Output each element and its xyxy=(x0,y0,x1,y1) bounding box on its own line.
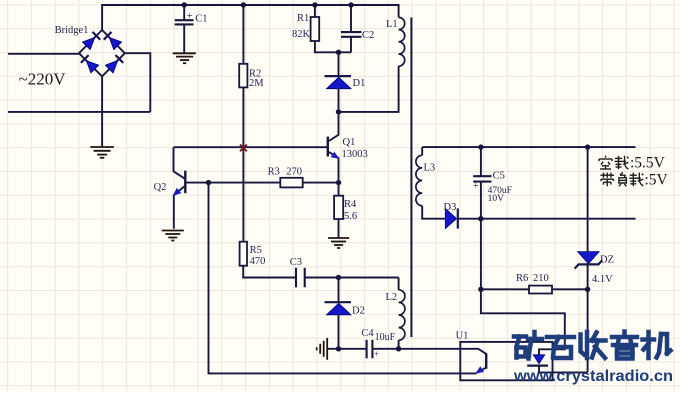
svg-text:www.crystalradio.cn: www.crystalradio.cn xyxy=(513,368,673,385)
svg-text:D2: D2 xyxy=(352,306,365,317)
svg-text:C1: C1 xyxy=(195,13,207,24)
svg-text:U1: U1 xyxy=(456,330,469,341)
svg-text:4.1V: 4.1V xyxy=(592,274,613,285)
svg-text:+: + xyxy=(374,349,379,359)
svg-text:Q2: Q2 xyxy=(154,182,167,193)
svg-text:Q1: Q1 xyxy=(343,137,356,148)
svg-text:C4: C4 xyxy=(361,328,374,339)
svg-text:~220V: ~220V xyxy=(19,70,67,89)
svg-text:210: 210 xyxy=(533,273,549,284)
svg-text::5V: :5V xyxy=(645,171,669,188)
svg-text:10uF: 10uF xyxy=(375,332,396,343)
svg-text:C5: C5 xyxy=(493,170,505,181)
svg-text:C3: C3 xyxy=(290,257,302,268)
svg-text:L1: L1 xyxy=(386,19,398,30)
svg-text:C2: C2 xyxy=(362,30,374,41)
svg-text:Bridge1: Bridge1 xyxy=(55,25,89,36)
svg-text:270: 270 xyxy=(286,167,302,178)
svg-text:5.6: 5.6 xyxy=(344,211,357,222)
svg-text:+: + xyxy=(473,181,479,192)
svg-text:R3: R3 xyxy=(268,167,280,178)
svg-text:L3: L3 xyxy=(424,163,436,174)
svg-text:10V: 10V xyxy=(488,194,505,204)
svg-text:D1: D1 xyxy=(353,78,366,89)
svg-text:R5: R5 xyxy=(250,245,262,256)
svg-text:13003: 13003 xyxy=(342,149,368,160)
svg-text:R4: R4 xyxy=(344,199,357,210)
svg-text:2M: 2M xyxy=(249,78,264,89)
svg-text:DZ: DZ xyxy=(600,255,614,266)
svg-text:D3: D3 xyxy=(444,202,457,213)
svg-text:R1: R1 xyxy=(297,13,309,24)
svg-text:+: + xyxy=(187,10,193,22)
svg-text:L2: L2 xyxy=(386,292,398,303)
svg-text:82K: 82K xyxy=(292,29,311,40)
svg-text:R6: R6 xyxy=(516,273,528,284)
svg-text:470: 470 xyxy=(250,256,266,267)
svg-text::5.5V: :5.5V xyxy=(630,154,666,171)
